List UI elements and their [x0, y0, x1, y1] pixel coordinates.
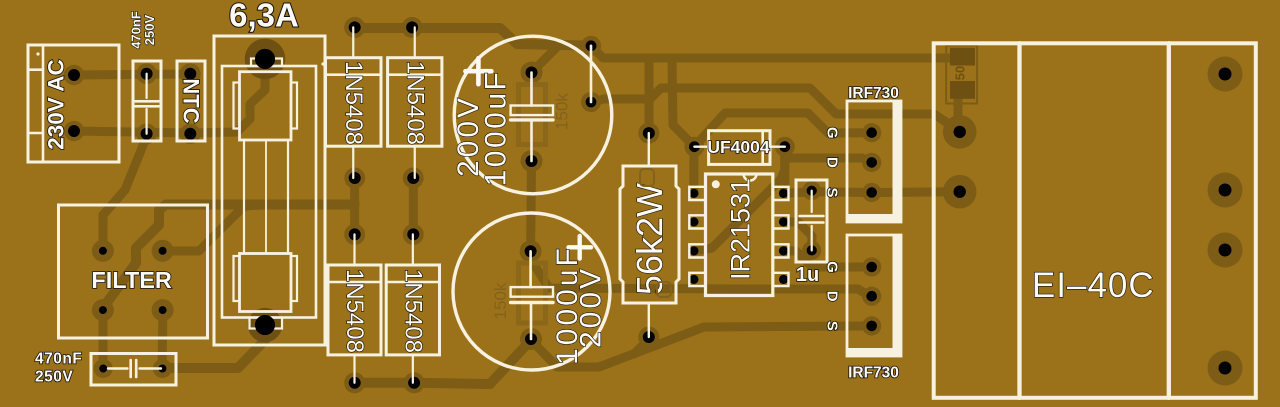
- svg-text:250V: 250V: [35, 368, 73, 385]
- pad UF4004 anode: [684, 137, 704, 157]
- pad Q1 gate: [862, 123, 881, 142]
- capacitor C3 circle 1000uF 200V: [453, 213, 610, 370]
- resistor R3 150k dark outline: [519, 85, 546, 145]
- op-amp U1 body IR21531: [706, 174, 773, 296]
- svg-text:IRF730: IRF730: [848, 365, 899, 382]
- fuse bottom pad hole redraw: [255, 315, 275, 335]
- resistor R1 body 56k 2W: [620, 166, 679, 303]
- silk dot near D1: [321, 62, 324, 65]
- label C3 plus sign: [569, 236, 592, 259]
- capacitor C6 plate 2: [135, 360, 138, 377]
- pad D1 top: [344, 17, 365, 38]
- wire UF4004 cathode to D1 pad: [785, 158, 872, 162]
- jumper wire link: [590, 46, 593, 102]
- capacitor C1 lead top: [146, 74, 148, 98]
- wire FILTER output to bridge node A: [103, 205, 355, 311]
- resistor R4 150k dark outline: [519, 263, 546, 323]
- pad FILTER 1: [92, 240, 114, 262]
- resistor R1 lead top: [648, 133, 650, 166]
- capacitor C6 lead right: [140, 367, 162, 369]
- pad FILTER 2: [152, 240, 174, 262]
- wire dark link to left transformer pad: [958, 98, 960, 132]
- capacitor C5 body 1u: [796, 180, 827, 262]
- pad TR1 sec 4: [1208, 351, 1243, 386]
- silk dot top-left: [36, 52, 39, 55]
- svg-text:D: D: [824, 157, 841, 168]
- wire C3 minus to S2 rail: [531, 326, 872, 367]
- connector J1 body: [28, 45, 119, 162]
- fuse F1 tab bottom-left: [234, 256, 240, 301]
- pad C5 top: [802, 181, 821, 200]
- pad U1 pin 1: [689, 187, 705, 200]
- svg-text:250V: 250V: [142, 14, 157, 45]
- capacitor C6 body: [91, 354, 176, 386]
- capacitor C1 body: [133, 61, 161, 141]
- connector J1 divider column: [42, 45, 45, 162]
- svg-text:1N5408: 1N5408: [341, 269, 368, 353]
- diode D3 cathode band: [328, 281, 381, 284]
- pad J1-2: [64, 121, 84, 141]
- diode D2 cathode band: [388, 73, 442, 76]
- wire midpoint to D2 drain: [531, 260, 870, 296]
- svg-text:NTC: NTC: [179, 78, 204, 123]
- pad TR1 sec 3: [1208, 233, 1243, 268]
- capacitor C2 plate 1 hollow: [511, 106, 553, 116]
- diode D2 body 1N5408: [388, 58, 442, 147]
- pad D4 bottom: [404, 372, 425, 393]
- wire FILTER pad 2 feeder to bridge rail: [163, 205, 262, 251]
- svg-text:200V: 200V: [575, 266, 608, 348]
- svg-text:D: D: [824, 291, 841, 302]
- pad D3 top: [344, 224, 365, 245]
- wire FILTER bottom-right to C6 right: [162, 310, 163, 368]
- label C2 plus sign: [465, 58, 491, 84]
- transistor Q2 body: [847, 235, 901, 356]
- diode D4 body 1N5408: [386, 265, 439, 355]
- pad C6 right: [153, 359, 172, 378]
- svg-text:IR21531: IR21531: [726, 178, 756, 280]
- wire FILTER bottom-left to C6 left: [99, 310, 108, 368]
- wire DC- rail: D3 D4 bottoms to C3 minus: [355, 340, 531, 384]
- connector J1 divider 1: [28, 68, 43, 71]
- fuse F1 tab bottom-right: [291, 256, 297, 301]
- svg-text:EI–40C: EI–40C: [1032, 266, 1155, 305]
- svg-text:1N5408: 1N5408: [399, 269, 426, 353]
- wire IC pin8 to C5 top to S1 to transformer: [784, 192, 960, 194]
- pad NTC top: [180, 63, 201, 84]
- pad D2 top: [402, 17, 423, 38]
- svg-text:IRF730: IRF730: [848, 85, 899, 102]
- capacitor C2 lead bottom: [530, 121, 533, 161]
- op-amp U1 pin1 dot: [712, 180, 720, 188]
- dark pad outline under R1 bottom: [657, 282, 671, 297]
- resistor R2 dark pad bottom: [950, 81, 975, 99]
- capacitor C1 plate 2: [135, 105, 158, 108]
- thermistor NTC body: [177, 61, 205, 141]
- pad Q2 drain: [862, 287, 881, 306]
- fuse F1 glass body: [244, 140, 288, 254]
- pad NTC bottom: [180, 124, 201, 145]
- pad TR1 sec 1: [1208, 57, 1243, 92]
- svg-text:1N5408: 1N5408: [401, 61, 428, 145]
- transformer TR1 outline EI-40C: [934, 43, 1256, 398]
- pad Q1 source: [862, 183, 881, 202]
- capacitor C2 plate 2: [511, 118, 553, 121]
- capacitor C3 plate 1 hollow: [511, 287, 553, 297]
- wire C6 right to fuse bottom pad: [162, 325, 265, 368]
- pad U1 pin 3: [689, 244, 705, 257]
- pad TR1 sec 2: [1208, 173, 1243, 208]
- capacitor C3 plate 2: [511, 301, 553, 304]
- resistor R2 footprint (dark layer) body outline: [946, 46, 977, 104]
- svg-text:1N5408: 1N5408: [340, 61, 367, 145]
- svg-text:FILTER: FILTER: [91, 267, 172, 293]
- transistor Q1 tab bar: [893, 101, 902, 222]
- wire midpoint C2- to C3+: [526, 161, 536, 251]
- pad C1 top: [136, 63, 157, 84]
- wire IC pin3 diagonal to UF4004 cathode: [694, 147, 785, 251]
- fuse F1 end cap bottom: [240, 254, 292, 312]
- diode D1 body 1N5408: [326, 58, 382, 147]
- svg-text:G: G: [824, 127, 841, 139]
- wire Vcc: UF left pad to IC pin1: [689, 147, 698, 192]
- wire bridge leg D2-D4: [409, 178, 418, 234]
- dark pad outline under R1 top: [640, 169, 654, 186]
- capacitor C1 plate 1: [135, 100, 158, 103]
- diode D1 cathode band: [326, 73, 382, 76]
- pad Q2 gate: [862, 257, 881, 276]
- capacitor C1 lead bottom: [146, 109, 148, 134]
- wire pin1 loop to G1: [694, 113, 828, 147]
- wire R1 top to HV bus: [645, 58, 654, 130]
- pad C5 bottom: [802, 241, 821, 260]
- resistor R2 dark pad top: [950, 48, 975, 66]
- filter L1 body: [59, 205, 208, 338]
- capacitor C5 plate 1: [800, 215, 824, 218]
- pad C3 plus: [520, 240, 542, 262]
- capacitor C6 lead left: [108, 367, 128, 369]
- svg-text:1000uF: 1000uF: [480, 70, 513, 187]
- pad R1 top: [638, 123, 659, 144]
- pad FILTER 3: [92, 299, 114, 321]
- svg-text:UF4004: UF4004: [707, 137, 770, 157]
- svg-text:S: S: [824, 321, 841, 331]
- wire IC pin7 to C5 bottom: [784, 222, 813, 251]
- pad FILTER 4: [152, 299, 174, 321]
- capacitor C5 plate 2: [800, 221, 824, 224]
- pad C2 plus: [521, 62, 543, 84]
- wire UF4004 cathode down: [784, 147, 785, 194]
- wire UF4004 anode riser: [672, 58, 694, 147]
- pad U1 pin 8: [773, 187, 789, 200]
- fuse F1 holder outline: [214, 36, 325, 345]
- diode D1 lead bottom: [352, 146, 354, 178]
- pad fuse bottom: [248, 308, 282, 342]
- wire HV bus: jumper top to transformer aux: [591, 46, 958, 58]
- wire jumper bottom to transformer feed: [591, 88, 960, 132]
- fuse F1 clip top: [251, 59, 282, 67]
- pad U1 pin 6: [773, 244, 789, 257]
- pad U1 pin 2: [689, 215, 705, 228]
- diode D5 body UF4004: [709, 131, 770, 165]
- diode D4 lead top: [412, 234, 414, 265]
- wire AC live: J1-1 to C1 top to NTC top: [74, 74, 190, 75]
- diode D2 lead top: [414, 27, 416, 57]
- pad jumper bottom: [581, 92, 601, 112]
- diode D5 lead right: [770, 145, 785, 147]
- transistor Q1 body: [847, 101, 901, 222]
- diode D1 lead top: [352, 27, 354, 57]
- transistor Q1 bottom bar: [847, 214, 901, 222]
- pad C6 left: [94, 359, 113, 378]
- pad Q2 source: [862, 316, 881, 335]
- fuse F1 tab top-left: [234, 83, 240, 129]
- pad D3 bottom: [344, 372, 365, 393]
- diode D3 lead bottom: [353, 355, 355, 383]
- wire C2 plus to DC+ rail: [532, 45, 560, 73]
- pad C2 minus: [521, 150, 543, 172]
- pad fuse top: [245, 39, 286, 80]
- pad D2 bottom: [403, 168, 424, 189]
- pad R1 bottom: [638, 327, 659, 348]
- wire DC+ rail: D1 top to D2 top to jumper: [355, 28, 591, 46]
- transistor Q2 tab bar: [893, 235, 902, 356]
- svg-text:6,3A: 6,3A: [229, 0, 299, 34]
- transistor Q2 bottom bar: [847, 348, 901, 356]
- pad U1 pin 7: [773, 215, 789, 228]
- svg-text:230V AC: 230V AC: [44, 59, 69, 149]
- wire bridge leg D1-D3: [350, 178, 359, 234]
- svg-text:1u: 1u: [796, 264, 819, 286]
- wire AC neutral: J1-2 to C1 bottom to NTC bottom to fuse: [74, 59, 265, 133]
- op-amp U1 notch: [744, 174, 757, 181]
- capacitor C5 lead bottom: [811, 226, 813, 250]
- transformer TR1 divider 1: [1017, 43, 1021, 398]
- pad D4 top: [403, 224, 424, 245]
- pad TR1 primary 1: [943, 115, 977, 149]
- capacitor C2 lead top: [530, 73, 533, 106]
- fuse F1 tab top-right: [291, 83, 297, 129]
- svg-text:G: G: [824, 261, 841, 273]
- pad C1 bottom: [136, 124, 157, 145]
- svg-text:150k: 150k: [491, 282, 510, 319]
- pad D1 bottom: [344, 168, 365, 189]
- svg-text:56k2W: 56k2W: [629, 183, 670, 295]
- diode D4 lead bottom: [412, 355, 414, 383]
- diode D3 lead top: [353, 234, 355, 265]
- pad J1-1: [64, 65, 84, 85]
- diode D2 lead bottom: [414, 146, 416, 178]
- capacitor C2 circle 1000uF 200V: [454, 36, 612, 194]
- svg-text:S: S: [824, 187, 841, 197]
- wire AC branch to FILTER input pad: [103, 133, 148, 251]
- svg-text:150k: 150k: [553, 93, 572, 130]
- wire branch to R1 bottom pad: [634, 339, 649, 354]
- pad U1 pin 5: [773, 273, 789, 286]
- resistor R1 lead bottom: [648, 303, 650, 337]
- pad TR1 primary 2: [943, 175, 977, 209]
- connector J1 divider 2: [28, 132, 43, 135]
- fuse top pad hole redraw: [255, 49, 275, 69]
- pad UF4004 cathode: [775, 137, 795, 157]
- capacitor C5 lead top: [811, 191, 813, 212]
- wire IC pin6 to gate G2: [784, 251, 870, 267]
- svg-text:50: 50: [953, 66, 968, 80]
- pad C3 minus: [520, 328, 542, 350]
- capacitor C3 lead top: [529, 251, 532, 287]
- diode D4 cathode band: [386, 281, 439, 284]
- fuse F1 end cap top: [240, 72, 292, 140]
- pad Q1 drain: [862, 153, 881, 172]
- capacitor C3 lead bottom: [530, 304, 533, 339]
- wire gate G1 feed tail: [828, 128, 870, 137]
- pad U1 pin 4: [689, 273, 705, 286]
- diode D3 body 1N5408: [328, 265, 381, 355]
- fuse F1 inner outline: [222, 66, 316, 318]
- transformer TR1 divider 2: [1167, 43, 1171, 398]
- capacitor C6 plate 1: [129, 360, 132, 377]
- diode D5 lead left: [694, 145, 708, 147]
- fuse F1 body center line: [265, 140, 267, 254]
- fuse F1 clip bottom: [250, 318, 283, 329]
- diode D5 cathode band: [761, 131, 764, 165]
- svg-text:470nF: 470nF: [35, 350, 82, 367]
- pad jumper top: [581, 36, 601, 56]
